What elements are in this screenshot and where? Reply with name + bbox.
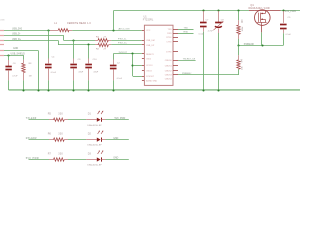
svg-text:CBUS4: CBUS4 xyxy=(165,79,173,81)
svg-text:AGND GND: AGND GND xyxy=(146,79,158,82)
svg-text:VCC: VCC xyxy=(146,30,151,32)
svg-text:CTS#: CTS# xyxy=(166,41,172,43)
svg-text:RESET#: RESET# xyxy=(146,54,155,56)
svg-text:USB_SHIELD: USB_SHIELD xyxy=(11,53,26,55)
svg-text:OSCO: OSCO xyxy=(146,71,152,73)
svg-text:RXD: RXD xyxy=(184,32,189,34)
svg-text:USB_DP: USB_DP xyxy=(146,45,155,47)
svg-text:DSA-4020-LBP: DSA-4020-LBP xyxy=(87,144,102,147)
svg-text:0.1uF: 0.1uF xyxy=(286,34,292,36)
svg-text:USB_DM: USB_DM xyxy=(146,40,155,42)
svg-text:PWREN#: PWREN# xyxy=(244,44,255,46)
svg-text:0.1uF: 0.1uF xyxy=(51,72,57,74)
svg-text:TXD: TXD xyxy=(184,27,189,29)
svg-text:4.7uF: 4.7uF xyxy=(12,75,18,77)
svg-text:TXD: TXD xyxy=(167,29,172,31)
svg-text:TXLED#_C8: TXLED#_C8 xyxy=(183,58,196,60)
svg-text:FTDI_D+: FTDI_D+ xyxy=(118,43,128,45)
svg-text:330: 330 xyxy=(58,113,63,116)
svg-text:3V3OUT: 3V3OUT xyxy=(119,52,128,54)
svg-text:AVCC_5V0: AVCC_5V0 xyxy=(119,28,131,31)
svg-text:IRLML6402 / 100F: IRLML6402 / 100F xyxy=(248,7,270,10)
svg-text:USB: USB xyxy=(0,19,5,21)
svg-text:CBUS0: CBUS0 xyxy=(165,60,173,62)
svg-text:RTS#: RTS# xyxy=(166,37,172,39)
svg-text:0.1uF: 0.1uF xyxy=(117,78,123,80)
svg-text:47pF: 47pF xyxy=(78,71,83,73)
svg-text:OSCI: OSCI xyxy=(146,58,151,60)
svg-text:3V3OUT: 3V3OUT xyxy=(146,76,155,78)
svg-text:GND: GND xyxy=(113,158,118,160)
svg-text:DSA-4020-LBP: DSA-4020-LBP xyxy=(87,124,102,127)
svg-text:CBUS2: CBUS2 xyxy=(165,71,173,73)
svg-text:FTDI_D-: FTDI_D- xyxy=(118,38,127,40)
svg-text:DTR#: DTR# xyxy=(166,52,172,54)
svg-text:CBUS1: CBUS1 xyxy=(165,66,173,68)
svg-text:CBUS3: CBUS3 xyxy=(165,75,173,77)
svg-text:RXD: RXD xyxy=(167,33,172,35)
svg-text:GND: GND xyxy=(13,48,18,50)
svg-text:4.7uF: 4.7uF xyxy=(208,31,214,33)
svg-text:330: 330 xyxy=(58,152,63,155)
svg-text:PWREN#: PWREN# xyxy=(182,73,192,75)
svg-text:5V0_PWR: 5V0_PWR xyxy=(115,118,126,120)
svg-text:FERRITE BEAD 1.0: FERRITE BEAD 1.0 xyxy=(67,22,91,25)
svg-text:47pF: 47pF xyxy=(93,71,98,73)
svg-text:FT232RL: FT232RL xyxy=(143,19,154,22)
svg-text:0.1uF: 0.1uF xyxy=(199,34,205,36)
svg-text:5V0_PWR: 5V0_PWR xyxy=(285,10,296,13)
svg-text:330: 330 xyxy=(58,133,63,136)
svg-text:1M: 1M xyxy=(29,75,32,77)
svg-text:VCCIO: VCCIO xyxy=(146,65,153,67)
svg-text:GND: GND xyxy=(113,138,118,140)
svg-text:DSA-4020-LBP: DSA-4020-LBP xyxy=(87,164,102,167)
